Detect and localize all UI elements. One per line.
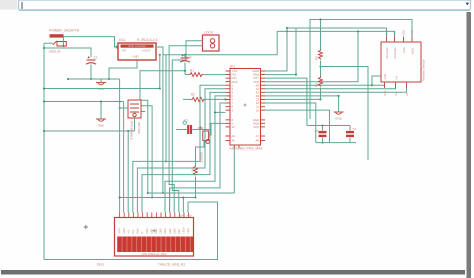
text cursor: [21, 2, 23, 9]
dropdown arrow: [466, 3, 470, 6]
svg-text:+5V: +5V: [186, 214, 191, 218]
lcd screen cells: [117, 237, 193, 253]
wire arduino staircase 2: [137, 89, 225, 213]
svg-text:10: 10: [256, 108, 260, 112]
wire y197 net: [120, 197, 196, 199]
svg-text:R2: R2: [191, 93, 195, 97]
horizontal scrollbar: [1, 270, 465, 275]
junction cap C5 bottom: [321, 142, 323, 144]
wire bottom loop: [44, 202, 218, 260]
wire arduino staircase 3: [142, 92, 226, 212]
arduino left pin names: [232, 69, 239, 143]
svg-text:LCD DISPLAY 16x2: LCD DISPLAY 16x2: [142, 252, 167, 256]
wire cap C5 stub b: [322, 138, 324, 143]
svg-text:DB5: DB5: [169, 228, 172, 234]
svg-text:VDD: VDD: [123, 228, 126, 234]
wire DC1 VOUT rail: [156, 31, 395, 54]
wire arduino staircase 4: [165, 96, 226, 213]
dc-dc converter DC1 box: [118, 43, 156, 60]
svg-text:E: E: [141, 232, 144, 234]
wire lcd pin1 riser: [119, 79, 121, 213]
resistor R1: [189, 73, 203, 77]
resistor R2: [191, 97, 205, 101]
svg-text:A7: A7: [256, 134, 260, 138]
svg-text:R-78C3.3-1.0: R-78C3.3-1.0: [137, 38, 157, 42]
wire bundle v1 to bus: [44, 55, 160, 89]
svg-text:SCA/SDA: SCA/SDA: [394, 47, 397, 59]
junction C2 branch: [184, 70, 186, 72]
svg-text:VCC: VCC: [253, 125, 259, 129]
svg-text:DB7: DB7: [178, 228, 181, 234]
svg-text:VO: VO: [127, 230, 130, 234]
wire C1 bottom to ground rail: [90, 65, 92, 80]
DC1 VIN arrow: [115, 46, 118, 49]
connector LOCK pin 1 circle: [210, 39, 214, 43]
transistor Q2: [198, 126, 210, 143]
wire R1 left: [185, 74, 189, 76]
wire A0 row to gnd sym: [265, 96, 339, 112]
wire VCC row up: [265, 31, 358, 81]
svg-text:LED-: LED-: [187, 227, 190, 233]
resistor R5: [319, 77, 323, 87]
svg-text:R/W: R/W: [137, 228, 140, 234]
svg-text:RS: RS: [132, 230, 135, 234]
wire R4 tap right: [321, 67, 369, 161]
resistor R3: [194, 166, 198, 176]
junction gnd drop: [338, 95, 340, 97]
junction R5 bottom: [319, 98, 321, 100]
svg-text:GND: GND: [384, 74, 387, 80]
junction gate x119: [119, 107, 121, 109]
svg-text:C5: C5: [315, 129, 319, 133]
wire A3 row to sensor gnd pin: [265, 85, 385, 88]
wire RST row to cap rail: [265, 78, 307, 125]
junction cap C5 top: [321, 124, 323, 126]
svg-text:DB4: DB4: [164, 228, 167, 234]
wire jack pin down: [63, 37, 65, 46]
lcd display DIS1 box: [115, 218, 194, 257]
wire lcd led+ riser: [182, 198, 184, 213]
wire jack to DC1 VIN: [64, 37, 119, 47]
svg-text:Remote Sensor: Remote Sensor: [422, 60, 426, 82]
capacitor C1: [86, 56, 96, 64]
wire R4 top: [320, 20, 322, 50]
nc circle near C3: [183, 121, 186, 124]
junction rail v1: [159, 54, 161, 56]
wire sensor left pin: [372, 76, 381, 85]
svg-text:IRF3708: IRF3708: [137, 122, 141, 134]
svg-text:GND: GND: [335, 117, 343, 121]
svg-text:GND: GND: [386, 30, 389, 36]
svg-text:VDD: VDD: [403, 30, 406, 36]
svg-text:INT: INT: [395, 92, 398, 97]
junction y79 dc1gnd: [108, 78, 110, 80]
svg-text:C4: C4: [353, 127, 357, 131]
svg-text:R5: R5: [314, 83, 318, 87]
wire A1 row to sensor pb: [265, 88, 407, 92]
wire R2 left: [183, 98, 191, 100]
wire lcd led- riser: [187, 202, 189, 213]
svg-text:PB: PB: [406, 92, 409, 96]
svg-text:R4: R4: [314, 56, 318, 60]
junction C1 gnd: [90, 78, 92, 80]
lcd center cross: [153, 229, 156, 232]
wire C2 bottom: [184, 63, 186, 75]
svg-text:POWER_JACKPTH: POWER_JACKPTH: [49, 29, 80, 33]
wire caps bottom rail: [316, 142, 356, 144]
junction mosfet y193: [147, 192, 149, 194]
wire R1 right: [203, 74, 226, 76]
svg-text:R1: R1: [190, 69, 194, 73]
junction y197 x119: [119, 196, 121, 198]
wire arduino bottom pin to lcd: [148, 149, 235, 194]
sensor top pin stubs: [387, 37, 413, 43]
wire bus corner to C1 top: [44, 48, 91, 57]
connector LOCK box: [203, 35, 220, 51]
junction y28 x287: [286, 27, 288, 29]
svg-text:A6: A6: [256, 139, 260, 143]
capacitor C4: [346, 132, 354, 136]
junction gnd up x296: [295, 74, 297, 76]
wire 12 row to cap bottom rail: [265, 103, 316, 143]
svg-text:ADD: ADD: [411, 30, 414, 36]
svg-text:A5: A5: [232, 139, 236, 143]
junction v2 y193: [162, 192, 164, 194]
dc-dc converter title strip: [121, 45, 154, 48]
wire R5 bottom: [320, 88, 322, 100]
wire GND row to sensor: [265, 28, 296, 75]
wire lcd pin2 riser: [123, 102, 125, 213]
arduino left pin stubs: [226, 71, 231, 141]
wire y79 gnd stub: [100, 79, 102, 82]
junction y101 x119: [119, 100, 121, 102]
junction R2 right: [224, 98, 226, 100]
svg-text:LOCK: LOCK: [204, 31, 214, 35]
wire cap C4 stub b: [349, 138, 351, 143]
wire LOCK pin1 to bundle v5: [172, 41, 202, 213]
wire A2 row to sensor int: [265, 87, 396, 90]
junction bus y48: [43, 47, 45, 49]
origin cross: [84, 225, 89, 230]
ground symbol right: [334, 112, 344, 114]
mosfet right pin stub 3: [142, 110, 146, 112]
svg-text:GND: GND: [384, 90, 387, 96]
wire row 112 stub: [215, 111, 226, 113]
arduino bottom edge pin stubs: [234, 145, 239, 149]
capacitor C2: [180, 54, 190, 62]
svg-text:VIN: VIN: [122, 49, 127, 52]
wire bus to jack contact: [44, 42, 53, 44]
svg-text:LED+: LED+: [183, 226, 186, 233]
wire gnd rail y79: [68, 78, 120, 80]
junction vout 287: [286, 30, 288, 32]
ground symbol below C1: [96, 83, 106, 85]
wire mosfet gate: [120, 107, 128, 109]
lcd pin stubs: [120, 213, 189, 218]
junction y79 left: [67, 78, 69, 80]
junction R3 bottom: [194, 196, 196, 198]
wire cap C4 stub t: [349, 126, 351, 131]
resistor R4: [319, 50, 323, 60]
junction jack lower pin: [62, 45, 64, 47]
svg-text:DB0: DB0: [146, 228, 149, 234]
junction y131 mosfet: [127, 130, 129, 132]
svg-text:SCL: SCL: [394, 30, 397, 36]
combo input bottom edge: [19, 9, 470, 11]
junction R4 top: [319, 18, 321, 20]
ground symbol mid left: [96, 119, 106, 121]
wire bus branch y101: [44, 101, 124, 103]
svg-text:R3: R3: [191, 168, 195, 172]
svg-text:GND: GND: [403, 47, 406, 53]
wire C2 branch to mosfet: [140, 71, 185, 100]
power jack J1 contact: [53, 41, 67, 46]
junction y197 led: [182, 196, 184, 198]
svg-text:VSS: VSS: [118, 228, 121, 233]
wire bus branch y131: [44, 130, 135, 132]
capacitor C5: [319, 132, 327, 136]
wire mosfet pin2 right: [142, 106, 153, 198]
wire caps top rail: [307, 125, 350, 127]
connector LOCK pin 2 circle: [210, 44, 214, 48]
wire DC1 gnd drop: [109, 60, 137, 79]
lcd pin labels: [118, 226, 190, 233]
sensor bottom pin stubs: [385, 82, 407, 88]
window corner box: [0, 0, 17, 10]
junction vcc y31: [357, 30, 359, 32]
svg-text:DB3: DB3: [160, 228, 163, 234]
wire R3 bottom: [195, 177, 197, 198]
wire arduino staircase 5: [170, 103, 226, 212]
svg-text:JS03_M: JS03_M: [49, 50, 61, 54]
junction A3 x372: [371, 84, 373, 86]
capacitor C3: [188, 125, 191, 134]
wire R2 right: [205, 98, 226, 100]
svg-text:GND: GND: [98, 124, 106, 128]
svg-text:C1: C1: [94, 56, 98, 60]
power jack J1 sleeve bar: [50, 34, 64, 37]
junction bus y131: [43, 130, 45, 132]
wire R4 bottom to R5: [320, 61, 322, 77]
svg-text:10: 10: [232, 125, 236, 129]
wire Q2 emitter to R3: [196, 141, 205, 166]
wire C3 left: [176, 129, 187, 131]
svg-text:SENSOR: SENSOR: [386, 47, 389, 58]
wire arduino staircase 1: [133, 85, 226, 212]
wire y28 to sensor: [296, 28, 387, 37]
svg-text:A4: A4: [232, 134, 236, 138]
svg-text:DC1: DC1: [119, 38, 126, 42]
combo input field: [19, 0, 471, 10]
svg-text:JP1: JP1: [230, 65, 236, 69]
arduino right pin stubs: [261, 71, 266, 141]
svg-text:ADD1: ADD1: [412, 47, 415, 54]
wire bundle v3: [165, 55, 167, 162]
svg-text:dc/dc converter: dc/dc converter: [128, 45, 146, 48]
wire mosfet source down: [134, 118, 136, 131]
arduino center cross: [244, 104, 247, 107]
arduino pro mini JP1 box: [230, 69, 261, 146]
wire lcd db4 riser: [164, 181, 166, 212]
remote sensor U2 box: [381, 42, 421, 82]
junction v3 st1: [165, 160, 167, 162]
junction bus y101: [43, 100, 45, 102]
junction staircase row112: [214, 111, 216, 113]
svg-text:TWILCD_MSQ_R2: TWILCD_MSQ_R2: [158, 262, 185, 266]
vertical scrollbar: [467, 12, 472, 278]
junction gnd2: [100, 100, 102, 102]
wire LOCK pin2 to bundle v4: [169, 46, 202, 213]
mosfet Q1 body: [128, 100, 141, 118]
junction bus y90: [43, 87, 45, 89]
arduino right pin names: [253, 69, 260, 143]
wire cap C5 stubs: [322, 126, 324, 131]
wire mosfet drain right: [142, 100, 148, 193]
wire gnd2 stub: [100, 102, 102, 120]
wire lcd pin3 riser: [127, 131, 129, 213]
junction rail C2: [184, 54, 186, 56]
svg-text:DB6: DB6: [173, 228, 176, 234]
wire left bus vertical: [43, 43, 45, 259]
junction v1 corner: [159, 87, 161, 89]
svg-text:DIS1: DIS1: [97, 262, 104, 266]
wire bundle v2: [162, 55, 164, 193]
junction mosfet y197: [151, 196, 153, 198]
wire C2 top stub: [184, 55, 186, 58]
svg-text:+5V: +5V: [178, 214, 183, 218]
svg-text:INT: INT: [396, 75, 399, 80]
junction R4 bottom: [319, 65, 321, 67]
wire 13 row to R5: [265, 98, 321, 100]
svg-text:RFP30N06LE: RFP30N06LE: [130, 121, 134, 140]
wire RAW drop: [265, 28, 287, 71]
wire lcd db5 riser: [169, 188, 171, 213]
wire Q2 base: [209, 123, 226, 135]
wire top net y19: [310, 20, 412, 120]
wire C3 right: [192, 129, 211, 131]
wire 10 row to cap loop: [265, 110, 330, 143]
svg-text:GND: GND: [133, 55, 139, 58]
svg-text:+VOUT: +VOUT: [142, 49, 151, 52]
